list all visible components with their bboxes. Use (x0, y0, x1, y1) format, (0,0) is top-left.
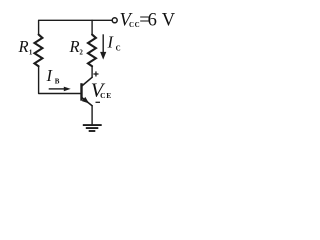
arrow IB (49, 87, 71, 92)
transistor Q1 base bar (80, 83, 82, 101)
resistor R2 (88, 35, 96, 67)
svg-text:R: R (18, 37, 29, 56)
transistor Q1 collector lead (82, 77, 92, 86)
wire R2 drop from rail (91, 20, 93, 34)
svg-text:I: I (46, 66, 54, 85)
svg-text:6: 6 (148, 10, 157, 30)
ground (83, 125, 102, 131)
transistor Q1 emitter lead (82, 98, 92, 106)
wire R1 bottom to base (39, 66, 81, 93)
terminal Vcc (112, 18, 117, 23)
svg-text:1: 1 (29, 49, 33, 57)
label minus (96, 101, 101, 103)
svg-text:R: R (69, 37, 80, 56)
arrow IC (100, 34, 106, 59)
wire emitter to ground (91, 106, 93, 124)
transistor Q1 emitter arrowhead (82, 97, 89, 104)
svg-text:CE: CE (100, 91, 112, 100)
svg-text:I: I (107, 33, 115, 52)
svg-text:B: B (55, 77, 60, 85)
svg-text:2: 2 (79, 49, 83, 57)
svg-text:V: V (162, 10, 176, 30)
wire R2 bottom to collector (91, 66, 93, 77)
svg-text:C: C (116, 44, 121, 52)
label plus (93, 71, 98, 76)
wire top rail (39, 20, 112, 34)
resistor R1 (35, 35, 43, 67)
